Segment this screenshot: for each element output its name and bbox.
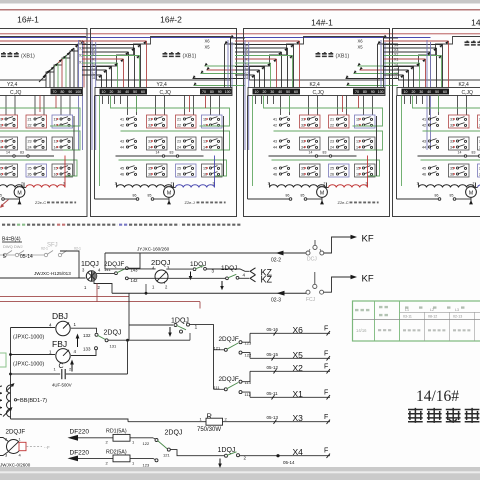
svg-text:(XB1): (XB1) xyxy=(183,54,197,60)
block 16#-1 contact group 11/12 xyxy=(52,115,73,128)
svg-text:42: 42 xyxy=(120,124,124,128)
top gray margin strip xyxy=(0,0,480,4)
svg-text:(XB1): (XB1) xyxy=(21,54,35,60)
svg-text:45: 45 xyxy=(120,167,124,171)
vertical junction wire x129 xyxy=(128,293,130,340)
block 14#-2 terminal bar numbers left xyxy=(402,89,450,95)
block 16#-2 terminal bar numbers right xyxy=(200,89,232,95)
svg-text:BB(BD1-7): BB(BD1-7) xyxy=(20,398,47,404)
block 14#-1 terminal bar numbers left xyxy=(253,89,301,95)
svg-text:46: 46 xyxy=(273,173,277,177)
block 14#-1 left wire y59 xyxy=(235,58,277,60)
svg-text:83: 83 xyxy=(472,151,476,155)
svg-text:Z2e-C: Z2e-C xyxy=(338,200,349,205)
block 14#-2 outer box xyxy=(393,29,480,217)
svg-text:K2,4: K2,4 xyxy=(310,82,321,88)
wire 142 to 1DQJ-4 xyxy=(128,277,225,279)
svg-text:X6: X6 xyxy=(205,39,211,44)
relay FBJ symbol xyxy=(56,349,70,363)
svg-text:750/30W: 750/30W xyxy=(197,427,221,433)
svg-text:05-15: 05-15 xyxy=(267,352,279,357)
block 14#-1 contact group 23/24 xyxy=(329,137,350,150)
block 16#-1 feeder wire y52 xyxy=(63,52,70,59)
block 16#-1 motor winding black xyxy=(0,185,23,188)
svg-text:133: 133 xyxy=(83,347,91,352)
block 14#-1 cable box XB1 xyxy=(250,37,384,81)
block 16#-2 cable box label xyxy=(163,53,182,57)
block 16#-2 left wire y63 xyxy=(82,62,118,64)
green legend box at left edge xyxy=(0,353,6,367)
contact 1DQJ-1 group xyxy=(129,324,173,326)
svg-text:90: 90 xyxy=(68,90,72,94)
drawing title main (fake hanzi) xyxy=(408,408,423,423)
svg-text:1DQJ: 1DQJ xyxy=(221,265,237,272)
svg-text:11: 11 xyxy=(394,76,398,80)
svg-text:60: 60 xyxy=(294,90,298,94)
block 14#-2 contact group 33/34 xyxy=(449,137,470,150)
block 16#-1 motor winding colored xyxy=(26,185,65,188)
block 14#-1 right wire y85.5 xyxy=(347,85,399,87)
svg-text:C,JQ: C,JQ xyxy=(313,90,325,96)
svg-text:123: 123 xyxy=(143,463,150,468)
svg-text:86: 86 xyxy=(435,194,439,198)
block 16#-1 cable box label xyxy=(1,53,20,57)
svg-text:2: 2 xyxy=(171,182,173,186)
block 14#-1 motor return line xyxy=(248,198,290,200)
svg-text:44: 44 xyxy=(273,146,277,150)
block 16#-2 contact group 23/24 xyxy=(176,137,197,150)
svg-text:X3: X3 xyxy=(293,413,304,423)
svg-text:Z2e-C: Z2e-C xyxy=(35,200,46,205)
svg-text:46: 46 xyxy=(120,173,124,177)
svg-text:JWJXC-H125/013: JWJXC-H125/013 xyxy=(34,271,71,276)
svg-text:43: 43 xyxy=(120,140,124,144)
svg-text:60: 60 xyxy=(141,90,145,94)
svg-text:2DQJ: 2DQJ xyxy=(165,430,183,437)
svg-text:40: 40 xyxy=(125,90,129,94)
block 14#-2 cable box XB1 xyxy=(399,37,480,81)
block 14#-2 contact group 21/22 xyxy=(478,115,480,128)
block 16#-2 left wire y66.5 xyxy=(82,66,112,68)
svg-text:44: 44 xyxy=(422,146,426,150)
block 16#-1 contact group 25/26 xyxy=(26,164,47,177)
wire bus to 2DQJ pin4 xyxy=(105,253,156,269)
svg-text:F: F xyxy=(324,414,328,421)
svg-text:05-13: 05-13 xyxy=(267,415,279,420)
svg-text:122: 122 xyxy=(245,353,252,358)
svg-text:25: 25 xyxy=(330,167,334,171)
svg-text:05-14: 05-14 xyxy=(20,254,33,260)
svg-text:(XB1): (XB1) xyxy=(336,54,350,60)
block 14#-2 navy pair verticals xyxy=(426,40,428,150)
block 14#-1 left wire y55.5 xyxy=(235,55,293,57)
contact DCJ group xyxy=(314,240,316,245)
svg-text:(JPXC-1000): (JPXC-1000) xyxy=(13,335,44,341)
svg-text:16#-2: 16#-2 xyxy=(160,15,182,25)
block 14#-2 left wire y52 xyxy=(384,51,431,53)
up arrow DBJ xyxy=(77,337,79,347)
block 14#-1 left wire y41 xyxy=(235,40,300,42)
svg-text:23: 23 xyxy=(177,140,181,144)
svg-text:2DQJF: 2DQJF xyxy=(219,336,239,343)
block 14#-2 left wire y55.5 xyxy=(384,55,442,57)
block 14#-1 right wire y73.5 xyxy=(354,73,399,75)
svg-text:70: 70 xyxy=(53,90,57,94)
svg-text:11: 11 xyxy=(92,76,96,80)
svg-text:K2,4: K2,4 xyxy=(459,82,470,88)
wire X5 row xyxy=(250,357,330,359)
svg-text:2: 2 xyxy=(473,182,475,186)
wire X3 row xyxy=(223,421,331,423)
svg-text:02-1: 02-1 xyxy=(74,247,81,251)
svg-text:83: 83 xyxy=(20,151,24,155)
svg-text:90: 90 xyxy=(218,90,222,94)
svg-text:83: 83 xyxy=(323,151,327,155)
svg-text:26: 26 xyxy=(28,173,32,177)
block 16#-2 left wire y44.5 xyxy=(82,44,141,46)
red wire pair left xyxy=(0,296,129,298)
svg-text:1DQJ: 1DQJ xyxy=(190,261,206,268)
bracket 143 to bus xyxy=(128,253,140,268)
block 16#-2 left wire y70 xyxy=(82,69,107,71)
svg-text:(JPXC-1000): (JPXC-1000) xyxy=(13,362,44,368)
wire to KZ upper xyxy=(206,269,249,271)
block 16#-2 outer box xyxy=(91,29,237,217)
left vertical junction wire xyxy=(10,328,12,420)
svg-text:23: 23 xyxy=(330,140,334,144)
svg-text:30: 30 xyxy=(419,90,423,94)
svg-text:10: 10 xyxy=(404,90,408,94)
svg-text:20: 20 xyxy=(262,90,266,94)
svg-text:14: 14 xyxy=(309,151,313,155)
block 16#-2 red operating wires xyxy=(189,96,191,113)
svg-text:12: 12 xyxy=(394,72,398,76)
wire X2 row xyxy=(250,370,330,372)
block 16#-2 right wire y38 xyxy=(231,37,246,39)
svg-text:L2: L2 xyxy=(430,308,434,312)
block 14#-2 contact group 35/36 xyxy=(449,164,470,177)
wire DBJ right to contact 132 xyxy=(71,328,97,333)
svg-text:86: 86 xyxy=(286,194,290,198)
wire X4 row xyxy=(240,455,331,457)
svg-text:5: 5 xyxy=(3,254,6,260)
svg-text:50: 50 xyxy=(286,90,290,94)
svg-text:B4=B(4): B4=B(4) xyxy=(2,237,21,243)
block 14#-1 right wire y78.5 xyxy=(346,78,399,80)
block 16#-2 coil feed vertical xyxy=(214,156,216,187)
svg-text:Z2e-J: Z2e-J xyxy=(185,200,195,205)
block 14#-1 left wire y44.5 xyxy=(235,44,294,46)
svg-text:02-13: 02-13 xyxy=(453,315,462,319)
wire 131 common xyxy=(108,339,190,341)
block 16#-2 right verticals xyxy=(230,38,232,88)
svg-text:2: 2 xyxy=(324,182,326,186)
bracket 2DQJF-1 to X6 X5 xyxy=(242,333,250,342)
up arrow FBJ xyxy=(71,363,73,372)
transformer BB label xyxy=(14,399,16,401)
wire to KZ lower xyxy=(239,277,249,279)
table grid xyxy=(374,301,376,341)
block 14#-2 motor winding black xyxy=(419,185,475,188)
svg-text:C,JQ: C,JQ xyxy=(462,90,474,96)
svg-text:DCJ: DCJ xyxy=(307,257,317,263)
block 16#-2 contact group 25/26 xyxy=(176,164,197,177)
svg-text:DF220: DF220 xyxy=(70,450,90,457)
wire FBJ right to contact 133 xyxy=(71,350,96,356)
block 16#-2 right wire y73.5 xyxy=(201,73,246,75)
svg-text:43: 43 xyxy=(273,140,277,144)
block 14#-2 left wire y48 xyxy=(384,47,437,49)
block 16#-1 contact group 35/36 xyxy=(0,164,18,177)
svg-text:14/16: 14/16 xyxy=(356,328,367,333)
block 16#-2 contact group 21/22 xyxy=(176,115,197,128)
block 16#-1 contact group 15/16 xyxy=(52,164,73,177)
svg-text:4UF-500V: 4UF-500V xyxy=(52,383,72,388)
svg-text:131: 131 xyxy=(110,344,117,349)
block 14#-2 left frame vertical xyxy=(396,96,398,200)
svg-text:F: F xyxy=(324,364,328,371)
block 14#-2 contact group 25/26 xyxy=(478,164,480,177)
transformer BB winding right xyxy=(7,385,11,417)
block 14#-1 cable box label xyxy=(316,53,335,57)
contact FCJ group xyxy=(314,272,316,284)
svg-text:90: 90 xyxy=(371,90,375,94)
block 16#-1 feeder wire y48 xyxy=(67,48,74,55)
svg-text:14: 14 xyxy=(394,63,398,67)
block 14#-1 row link line xyxy=(269,155,357,157)
svg-text:21: 21 xyxy=(28,118,32,122)
svg-text:05-16: 05-16 xyxy=(267,327,279,332)
svg-text:05-14: 05-14 xyxy=(283,460,295,465)
svg-text:X5: X5 xyxy=(358,45,364,50)
svg-text:80: 80 xyxy=(210,90,214,94)
svg-text:X6: X6 xyxy=(293,325,304,335)
svg-text:C,JQ: C,JQ xyxy=(10,90,22,96)
svg-text:26: 26 xyxy=(330,173,334,177)
svg-text:RD1(5A): RD1(5A) xyxy=(106,429,127,435)
wire 1DQJ-1 to 2DQJF column xyxy=(190,325,214,390)
block 14#-2 green indication wires xyxy=(401,96,403,187)
block 16#-2 navy pair verticals xyxy=(91,40,93,150)
svg-text:30: 30 xyxy=(117,90,121,94)
block 14#-2 contact group 23/24 xyxy=(478,137,480,150)
svg-text:80: 80 xyxy=(60,90,64,94)
svg-text:L1: L1 xyxy=(405,308,409,312)
svg-text:100: 100 xyxy=(225,90,231,94)
block 16#-1 feeder wire y70 xyxy=(43,70,50,77)
block 16#-1 feeder wire y41 xyxy=(0,40,84,42)
svg-text:X5: X5 xyxy=(205,45,211,50)
svg-text:85: 85 xyxy=(0,194,2,198)
svg-text:24: 24 xyxy=(28,146,32,150)
block 14#-2 left wire y44.5 xyxy=(384,44,443,46)
svg-text:43: 43 xyxy=(422,140,426,144)
block 16#-2 contact group 33/34 xyxy=(147,137,168,150)
block 16#-1 red tail wire xyxy=(1,200,9,207)
wire SFJ to 1DQJ xyxy=(60,251,79,278)
block 14#-2 left wire y59 xyxy=(384,58,426,60)
svg-text:10: 10 xyxy=(102,90,106,94)
wire FCJ to KF lower xyxy=(324,277,351,292)
block 16#-1 right contact vertical xyxy=(73,116,75,176)
svg-text:1DQJ: 1DQJ xyxy=(171,318,189,325)
relay 2DQJ symbol xyxy=(155,270,168,283)
block 16#-1 feeder wire y75 xyxy=(39,75,46,82)
svg-text:FCJ: FCJ xyxy=(306,297,316,303)
block 16#-2 left wire y52 xyxy=(82,51,129,53)
signal table green border xyxy=(353,301,480,341)
block 16#-2 motor winding colored xyxy=(176,185,215,188)
svg-text:41: 41 xyxy=(422,118,426,122)
svg-text:X1: X1 xyxy=(293,389,304,399)
block 14#-1 right wire y66 xyxy=(358,65,399,67)
svg-text:X6: X6 xyxy=(358,39,364,44)
block 16#-2 contact group 31/32 xyxy=(147,115,168,128)
block 16#-2 motor return line xyxy=(95,198,137,200)
svg-text:KF: KF xyxy=(362,274,374,285)
svg-text:86: 86 xyxy=(133,194,137,198)
svg-text:22: 22 xyxy=(330,124,334,128)
svg-text:85: 85 xyxy=(148,194,152,198)
bus wire blue y37.5 xyxy=(0,37,431,39)
svg-text:M: M xyxy=(469,191,473,197)
block 14#-2 wire drops below bar xyxy=(404,96,406,105)
svg-text:JWJXC-0/2600: JWJXC-0/2600 xyxy=(0,463,31,468)
svg-text:21: 21 xyxy=(330,118,334,122)
top power bus (dark red) xyxy=(0,9,480,11)
block 14#-1 terminal bar xyxy=(248,88,385,96)
svg-text:F: F xyxy=(324,390,328,397)
svg-text:M: M xyxy=(167,191,171,197)
svg-text:05-12: 05-12 xyxy=(267,365,279,370)
svg-text:113: 113 xyxy=(245,380,252,385)
svg-text:X4: X4 xyxy=(394,44,398,48)
block 16#-1 feeder wire y44.5 xyxy=(0,44,78,46)
svg-text:25: 25 xyxy=(28,167,32,171)
svg-text:121: 121 xyxy=(163,453,170,458)
block 14#-1 coil feed vertical xyxy=(367,156,369,187)
svg-text:FBJ: FBJ xyxy=(52,339,67,349)
relay 2DQJF wires xyxy=(0,438,9,442)
block 16#-2 contact group 35/36 xyxy=(147,164,168,177)
block 14#-1 contact group 15/16 xyxy=(355,164,376,177)
svg-text:85: 85 xyxy=(301,194,305,198)
svg-text:70: 70 xyxy=(202,90,206,94)
svg-text:02-1: 02-1 xyxy=(41,247,48,251)
svg-text:30: 30 xyxy=(270,90,274,94)
block 14#-2 contact group 31/32 xyxy=(449,115,470,128)
block 14#-1 contact group 31/32 xyxy=(300,115,321,128)
svg-text:F: F xyxy=(324,448,328,455)
block 14#-2 motor return line xyxy=(397,198,439,200)
wire FBJ left xyxy=(11,354,56,356)
block 16#-2 right contact vertical xyxy=(223,116,225,176)
svg-text:14/16#: 14/16# xyxy=(416,388,459,405)
block 14#-1 contact group 11/12 xyxy=(355,115,376,128)
svg-text:42: 42 xyxy=(422,124,426,128)
svg-text:DBJ: DBJ xyxy=(52,311,68,321)
svg-text:50: 50 xyxy=(435,90,439,94)
block 14#-1 navy pair verticals xyxy=(244,40,246,150)
block 16#-2 right wire y78.5 xyxy=(193,78,246,80)
block 16#-2 wire drops below bar xyxy=(102,96,104,105)
svg-text:Y2,4: Y2,4 xyxy=(7,82,18,88)
svg-text:26: 26 xyxy=(177,173,181,177)
block 16#-1 contact group 13/14 xyxy=(52,137,73,150)
svg-text:123: 123 xyxy=(245,341,252,346)
svg-text:122: 122 xyxy=(143,441,150,446)
svg-text:KF: KF xyxy=(362,234,374,245)
svg-text:41: 41 xyxy=(120,118,124,122)
svg-text:41: 41 xyxy=(273,118,277,122)
svg-text:2DQJF: 2DQJF xyxy=(219,376,239,383)
svg-text:85: 85 xyxy=(450,194,454,198)
svg-text:83: 83 xyxy=(170,151,174,155)
block 14#-2 left wire y41 xyxy=(384,40,449,42)
block 16#-2 right wire y85.5 xyxy=(194,85,246,87)
block 16#-1 row link line xyxy=(0,155,54,157)
block 16#-2 left wire y48 xyxy=(82,47,135,49)
block 16#-2 terminal bar xyxy=(95,88,232,96)
block 14#-1 right wire y70 xyxy=(360,69,399,71)
wire from left edge to 1DQJ relay xyxy=(0,277,86,279)
block 16#-2 contact group 11/12 xyxy=(202,115,223,128)
svg-text:08-12: 08-12 xyxy=(428,315,437,319)
svg-text:C,JQ: C,JQ xyxy=(160,90,172,96)
block 16#-2 row link line xyxy=(116,155,204,157)
block 16#-1 red operating wires xyxy=(39,96,41,113)
block 16#-2 left frame vertical xyxy=(94,96,96,200)
svg-text:44: 44 xyxy=(120,146,124,150)
svg-text:80: 80 xyxy=(363,90,367,94)
return bus 02-3 xyxy=(94,281,112,294)
block 14#-1 left wire y75 xyxy=(235,74,255,76)
block 16#-2 right wire y44 xyxy=(225,43,246,45)
svg-text:X3: X3 xyxy=(394,48,398,52)
svg-text:14: 14 xyxy=(6,151,10,155)
svg-text:M: M xyxy=(320,191,324,197)
table header texts xyxy=(355,309,370,311)
block 14#-2 terminal bar xyxy=(397,88,480,96)
block 16#-2 left wire y55.5 xyxy=(82,55,140,57)
svg-text:45: 45 xyxy=(422,167,426,171)
relay 2DQJF gray output xyxy=(26,446,42,448)
block 14#-1 left wire y63 xyxy=(235,62,271,64)
transformer BB arrows xyxy=(6,385,13,392)
svg-text:03-11: 03-11 xyxy=(403,315,412,319)
relay DBJ symbol xyxy=(56,321,70,335)
block 16#-2 contact group 15/16 xyxy=(202,164,223,177)
block 16#-2 motor M xyxy=(172,187,176,189)
svg-text:SFJ: SFJ xyxy=(47,243,58,249)
wire X6 row xyxy=(250,332,330,334)
block 16#-1 cable box XB1 (mirrored) xyxy=(0,37,86,81)
wire 1DQJ pin4 to contact 141 xyxy=(97,272,115,274)
svg-text:46: 46 xyxy=(422,173,426,177)
block 14#-2 motor M xyxy=(474,187,478,189)
block 14#-1 green indication wires xyxy=(252,96,254,187)
block 16#-2 contact group 13/14 xyxy=(202,137,223,150)
svg-text:100: 100 xyxy=(75,90,81,94)
svg-text:X2: X2 xyxy=(394,53,398,57)
svg-text:F: F xyxy=(324,326,328,333)
svg-text:23: 23 xyxy=(28,140,32,144)
block 16#-2 navy pair verticals right xyxy=(227,40,229,88)
block 16#-1 feeder wire y63 xyxy=(51,63,58,70)
block 16#-2 motor winding black xyxy=(117,185,173,188)
block 16#-1 contact group 31/32 xyxy=(0,115,18,128)
svg-text:Y2,4: Y2,4 xyxy=(157,82,168,88)
